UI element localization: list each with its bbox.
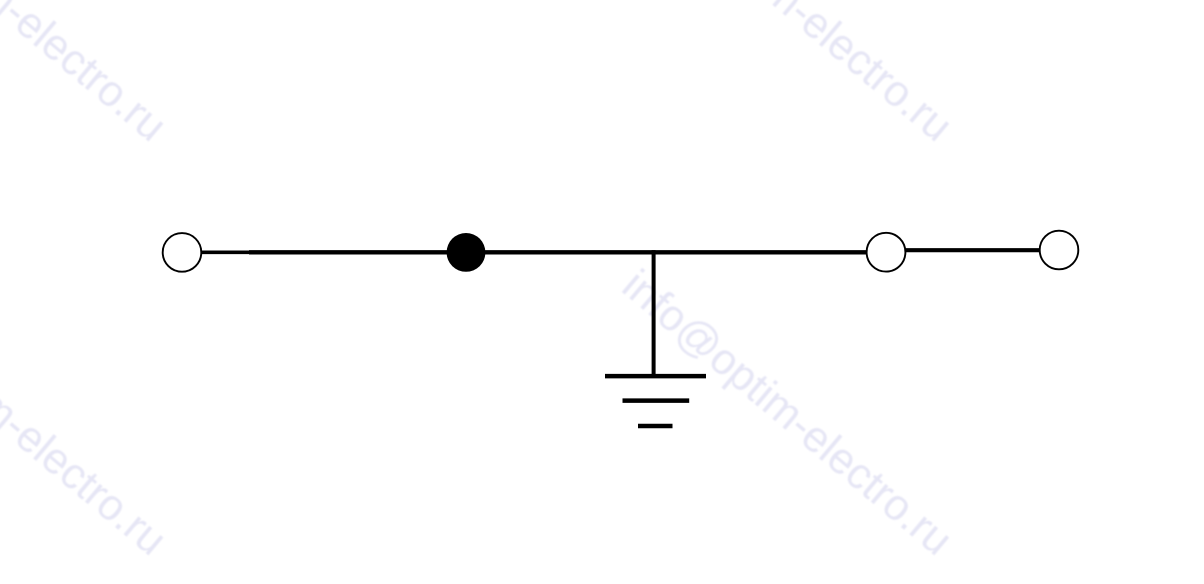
svg-text:info@optim-electro.ru: info@optim-electro.ru: [613, 261, 961, 565]
terminal T1 (left open circle): [163, 233, 202, 272]
svg-text:info@optim-electro.ru: info@optim-electro.ru: [0, 0, 175, 151]
terminal T2 (middle open circle): [867, 233, 906, 272]
svg-text:info@optim-electro.ru: info@optim-electro.ru: [613, 0, 961, 151]
wire (between T2 and T3): [906, 248, 1040, 252]
wire (lead from terminal T1): [202, 251, 250, 255]
wire (main horizontal net): [249, 250, 866, 254]
terminal T3 (right open circle): [1040, 231, 1079, 270]
junction J1 (solder dot): [447, 233, 486, 272]
wire (vertical to ground): [652, 250, 656, 376]
svg-text:info@optim-electro.ru: info@optim-electro.ru: [0, 261, 175, 565]
ground: [605, 376, 706, 426]
